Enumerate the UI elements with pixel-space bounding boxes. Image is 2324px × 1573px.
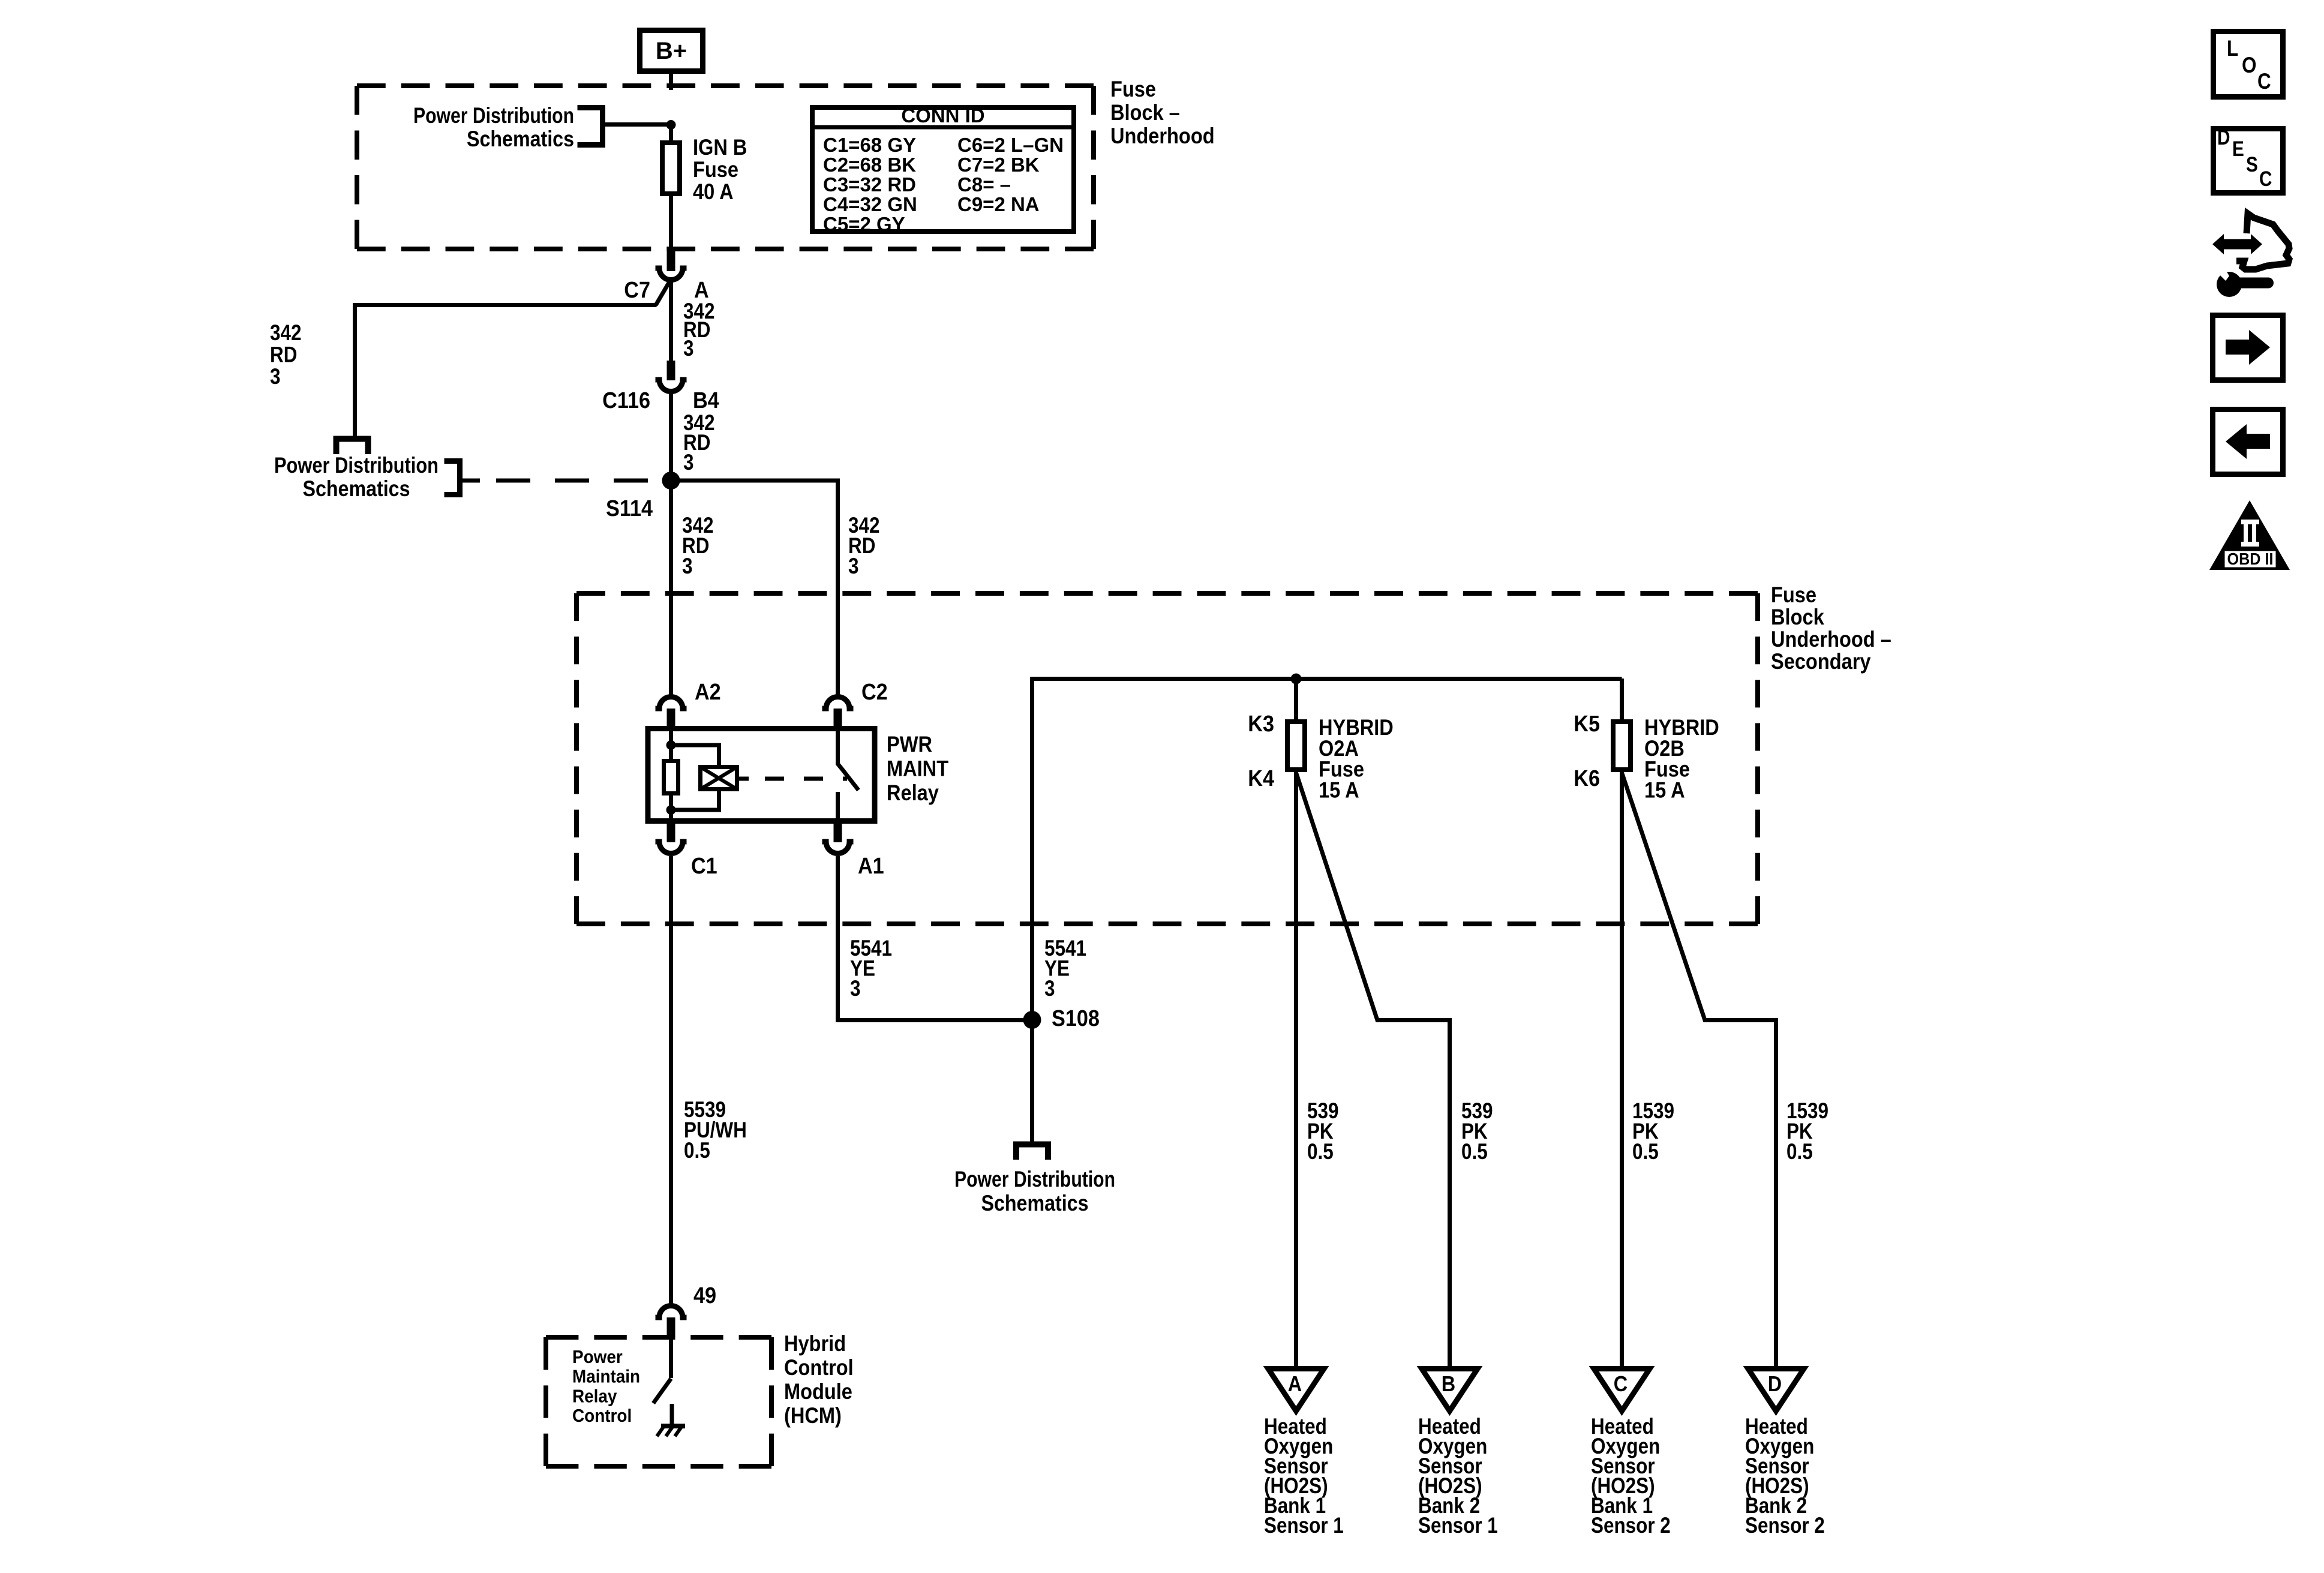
svg-text:C: C xyxy=(2257,69,2271,94)
svg-text:3: 3 xyxy=(683,336,694,361)
hybrid control module (dashed box) xyxy=(546,1335,771,1340)
svg-text:3: 3 xyxy=(683,450,694,475)
pin 49 stub xyxy=(667,1317,675,1340)
svg-text:OBD II: OBD II xyxy=(2227,550,2274,568)
svg-text:Sensor 1: Sensor 1 xyxy=(1264,1513,1344,1538)
svg-text:Maintain: Maintain xyxy=(572,1366,640,1387)
svg-text:3: 3 xyxy=(270,364,281,389)
icon wiring repair (arrow, car, wrench) xyxy=(2212,214,2289,297)
svg-text:C9=2 NA: C9=2 NA xyxy=(957,193,1040,215)
svg-text:C7: C7 xyxy=(624,278,650,303)
wire C116 to S114 xyxy=(669,391,673,481)
connector A2 cup xyxy=(656,680,721,709)
svg-text:C5=2 GY: C5=2 GY xyxy=(823,213,905,235)
svg-text:C7=2 BK: C7=2 BK xyxy=(957,154,1040,176)
svg-text:3: 3 xyxy=(682,554,693,578)
icon OBD II xyxy=(2209,500,2290,570)
svg-text:A: A xyxy=(1288,1371,1302,1396)
svg-text:Secondary: Secondary xyxy=(1771,649,1871,674)
off-page triangle D xyxy=(1748,1369,1804,1412)
svg-text:Sensor 2: Sensor 2 xyxy=(1745,1513,1825,1538)
label hybrid control module xyxy=(784,1331,854,1428)
svg-text:B4: B4 xyxy=(693,388,719,413)
svg-text:Module: Module xyxy=(784,1379,852,1404)
svg-text:Power: Power xyxy=(572,1346,623,1367)
svg-text:A2: A2 xyxy=(695,680,721,705)
svg-text:K6: K6 xyxy=(1574,766,1600,791)
wire S108 to tap xyxy=(1030,1020,1034,1142)
wire branch C7 to left tap xyxy=(355,280,671,440)
wire K6 to sensor C xyxy=(1620,770,1624,1366)
fuse block underhood (dashed box) xyxy=(357,83,1094,88)
wire label 5541 YE 3 (S108 leg) xyxy=(1044,936,1086,1001)
svg-text:C3=32 RD: C3=32 RD xyxy=(823,173,916,196)
svg-text:C: C xyxy=(2259,167,2272,191)
wire S108 riser to fuses xyxy=(1032,679,1622,1020)
svg-text:Power Distribution: Power Distribution xyxy=(413,103,574,128)
label HO2S (B) xyxy=(1418,1414,1498,1538)
svg-text:15 A: 15 A xyxy=(1644,778,1685,802)
svg-text:C1: C1 xyxy=(691,854,717,879)
svg-text:S108: S108 xyxy=(1052,1006,1100,1031)
svg-text:K3: K3 xyxy=(1248,712,1274,737)
svg-text:C8= –: C8= – xyxy=(957,173,1011,196)
fuse block underhood secondary (dashed box) xyxy=(577,591,1758,596)
actuator link solid stub xyxy=(739,777,749,781)
svg-text:Sensor 2: Sensor 2 xyxy=(1591,1513,1671,1538)
label PWR MAINT relay xyxy=(887,732,948,805)
svg-text:C116: C116 xyxy=(602,388,650,413)
svg-text:D: D xyxy=(2217,126,2230,149)
svg-text:O: O xyxy=(2242,53,2257,77)
svg-text:Sensor 1: Sensor 1 xyxy=(1418,1513,1498,1538)
svg-text:CONN ID: CONN ID xyxy=(901,104,984,127)
connector C2 cup xyxy=(822,680,888,709)
svg-text:C6=2 L–GN: C6=2 L–GN xyxy=(957,134,1064,156)
svg-text:Fuse: Fuse xyxy=(1110,77,1156,101)
wire label 342 RD 3 (A leg) xyxy=(683,299,715,361)
fuse HYBRID O2A 15 A xyxy=(1248,712,1394,802)
svg-text:3: 3 xyxy=(850,976,861,1001)
svg-text:0.5: 0.5 xyxy=(1632,1139,1659,1164)
svg-text:(HCM): (HCM) xyxy=(784,1403,842,1428)
svg-text:49: 49 xyxy=(693,1283,716,1308)
svg-text:Relay: Relay xyxy=(572,1385,617,1406)
label power maintain relay control xyxy=(572,1346,640,1426)
svg-text:Control: Control xyxy=(572,1405,632,1426)
svg-text:Fuse: Fuse xyxy=(693,157,738,182)
icon forward arrow xyxy=(2213,316,2283,380)
wire node to fuse IGN B xyxy=(669,125,673,143)
label power distribution schematics (left) xyxy=(274,453,439,501)
wire S114 down to A2 xyxy=(669,481,673,697)
svg-text:Underhood –: Underhood – xyxy=(1771,627,1891,652)
svg-text:D: D xyxy=(1768,1371,1782,1396)
label HO2S (D) xyxy=(1745,1414,1825,1538)
wire bracket to node xyxy=(602,122,671,127)
fuse HYBRID O2B 15 A xyxy=(1574,712,1719,802)
svg-text:B: B xyxy=(1442,1371,1455,1396)
svg-text:Hybrid: Hybrid xyxy=(784,1331,846,1356)
pin A1 stub xyxy=(834,823,842,842)
battery feed B+ xyxy=(640,31,703,71)
connector C7 cup xyxy=(624,268,708,303)
dashed actuator link xyxy=(765,777,847,781)
wire corner to fuse O2B xyxy=(1620,679,1624,722)
relay coil resistor xyxy=(664,761,678,794)
svg-text:Schematics: Schematics xyxy=(303,476,410,501)
chassis ground xyxy=(657,1404,685,1436)
wire label 342 RD 3 (S114 right leg) xyxy=(848,513,880,578)
connector C116 cup xyxy=(602,380,719,413)
pin C1 stub xyxy=(667,823,675,842)
pin A2 stub xyxy=(667,709,675,729)
wire K4 diagonal to sensor B xyxy=(1296,773,1450,1366)
off-page triangle C xyxy=(1594,1369,1650,1412)
wire label 1539 PK 0.5 (C) xyxy=(1632,1098,1674,1164)
wire label 539 PK 0.5 (B) xyxy=(1461,1098,1493,1164)
svg-text:Block: Block xyxy=(1771,605,1824,629)
coil bottom wire xyxy=(669,795,673,821)
svg-text:0.5: 0.5 xyxy=(1786,1139,1813,1164)
solenoid box with X xyxy=(701,767,737,789)
CONN ID table xyxy=(812,104,1074,235)
off-page triangle A xyxy=(1268,1369,1324,1412)
switch blade xyxy=(837,763,859,790)
svg-text:0.5: 0.5 xyxy=(684,1138,710,1163)
connector 49 cup xyxy=(656,1283,717,1317)
fuse IGN B 40 A xyxy=(662,135,747,204)
bracket power distribution tap (top) xyxy=(578,108,603,145)
svg-text:Relay: Relay xyxy=(887,781,939,805)
dashed wire tap to S114 xyxy=(460,479,480,483)
svg-text:C1=68 GY: C1=68 GY xyxy=(823,134,916,156)
svg-text:342: 342 xyxy=(270,320,302,345)
wire label 539 PK 0.5 (A) xyxy=(1307,1098,1339,1164)
svg-text:S114: S114 xyxy=(606,496,653,521)
wire A1 to S108 xyxy=(838,856,1032,1020)
svg-text:40 A: 40 A xyxy=(693,179,734,204)
wire label 342 RD 3 (B4 leg) xyxy=(683,410,715,475)
svg-text:C2=68 BK: C2=68 BK xyxy=(823,154,916,176)
pin C2 stub xyxy=(834,709,842,729)
pin B4 stub into C116 xyxy=(667,361,675,380)
relay coil wire from A2 xyxy=(669,729,673,761)
svg-text:Power Distribution: Power Distribution xyxy=(274,453,439,478)
wire label 5539 PU/WH 0.5 xyxy=(684,1097,747,1163)
HCM internal wire xyxy=(669,1340,673,1378)
icon back arrow xyxy=(2213,410,2283,475)
svg-text:C: C xyxy=(1614,1371,1628,1396)
wire label 342 RD 3 (S114 left leg) xyxy=(682,513,714,578)
off-page tap (left branch) xyxy=(337,439,368,455)
svg-text:0.5: 0.5 xyxy=(1461,1139,1488,1164)
svg-text:15 A: 15 A xyxy=(1319,778,1359,802)
wire to solenoid bottom xyxy=(671,789,719,810)
wire K4 to sensor A xyxy=(1294,770,1298,1366)
wire C1 to HCM pin 49 xyxy=(669,856,673,1305)
svg-text:Fuse: Fuse xyxy=(1771,583,1816,607)
svg-text:K4: K4 xyxy=(1248,766,1274,791)
svg-text:Schematics: Schematics xyxy=(467,127,574,151)
wire to solenoid top xyxy=(671,745,719,767)
label fuse block underhood xyxy=(1110,77,1215,148)
svg-text:S: S xyxy=(2246,153,2258,176)
off-page triangle B xyxy=(1422,1369,1478,1412)
svg-text:3: 3 xyxy=(848,554,859,578)
connector C1 cup xyxy=(656,842,717,879)
svg-text:C4=32 GN: C4=32 GN xyxy=(823,193,917,215)
svg-text:Underhood: Underhood xyxy=(1110,124,1215,148)
svg-text:PWR: PWR xyxy=(887,732,932,757)
wire label 342 RD 3 (left branch) xyxy=(270,320,302,389)
coil node top xyxy=(666,740,676,750)
label HO2S (A) xyxy=(1264,1414,1344,1538)
wire C7 to C116 xyxy=(669,280,673,362)
wire label 5541 YE 3 (A1 leg) xyxy=(850,936,892,1001)
svg-text:E: E xyxy=(2232,137,2244,161)
connector A1 cup xyxy=(822,842,884,879)
relay PWR MAINT box xyxy=(648,729,875,821)
svg-text:Control: Control xyxy=(784,1355,854,1380)
wire fuse to C7 xyxy=(669,194,673,251)
svg-text:RD: RD xyxy=(270,343,297,367)
svg-text:3: 3 xyxy=(1044,976,1055,1001)
splice S114 xyxy=(606,472,680,521)
icon LOC xyxy=(2214,32,2283,97)
label power distribution schematics (top) xyxy=(413,103,574,151)
svg-text:IGN B: IGN B xyxy=(693,135,747,160)
label fuse block underhood secondary xyxy=(1771,583,1891,674)
svg-text:Block –: Block – xyxy=(1110,100,1180,125)
svg-text:A1: A1 xyxy=(858,854,884,879)
svg-text:Power Distribution: Power Distribution xyxy=(954,1167,1115,1191)
junction node to power distribution tap xyxy=(666,120,676,130)
switch lower contact xyxy=(836,792,840,821)
icon DESC xyxy=(2214,126,2283,193)
svg-text:C2: C2 xyxy=(861,680,888,705)
wire B+ to fuse block xyxy=(669,71,673,90)
svg-text:K5: K5 xyxy=(1574,712,1600,737)
bracket power distribution tap (middle) xyxy=(445,461,460,495)
label HO2S (C) xyxy=(1591,1414,1671,1538)
node K3 branch xyxy=(1291,674,1302,685)
splice S108 xyxy=(1023,1006,1100,1031)
switch upper contact from C2 xyxy=(836,729,840,764)
wire K6 diagonal to sensor D xyxy=(1622,773,1776,1366)
svg-text:L: L xyxy=(2227,36,2238,61)
svg-text:B+: B+ xyxy=(656,38,687,64)
wire node to fuse O2A xyxy=(1294,679,1298,722)
svg-text:0.5: 0.5 xyxy=(1307,1139,1334,1164)
svg-text:MAINT: MAINT xyxy=(887,757,948,781)
off-page tap (S108) xyxy=(1016,1145,1048,1160)
pin A stub into C7 xyxy=(667,249,675,271)
coil node bottom xyxy=(666,805,676,815)
label power distribution schematics (bottom) xyxy=(954,1167,1115,1215)
svg-text:Schematics: Schematics xyxy=(981,1191,1089,1215)
wire label 1539 PK 0.5 (D) xyxy=(1786,1098,1828,1164)
wire S114 right branch to C2 xyxy=(671,481,838,697)
HCM switch blade xyxy=(653,1379,671,1403)
